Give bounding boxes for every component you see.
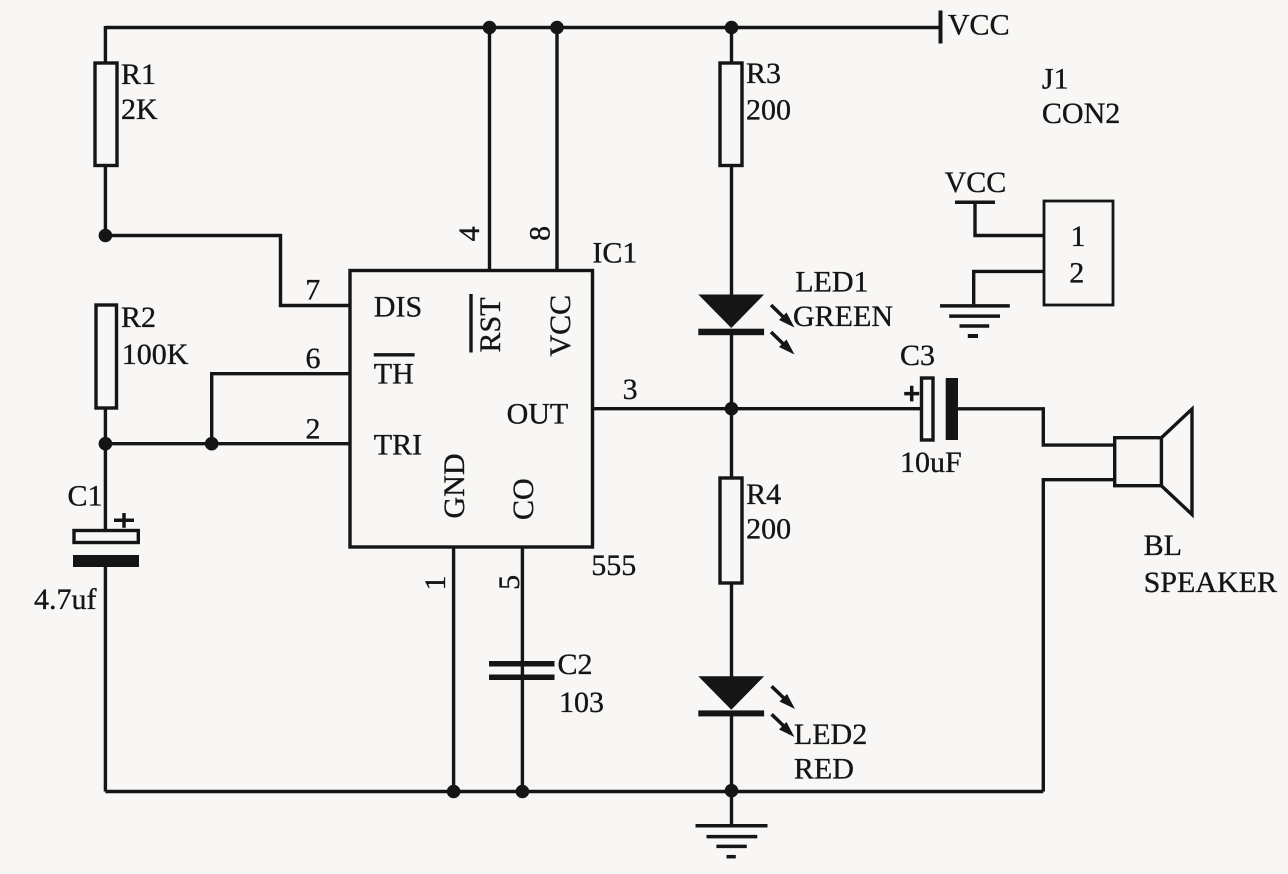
svg-text:RST: RST: [474, 297, 507, 352]
svg-text:R3: R3: [746, 57, 781, 90]
svg-text:C1: C1: [68, 479, 103, 512]
svg-text:VCC: VCC: [945, 166, 1007, 199]
svg-text:R2: R2: [121, 301, 156, 334]
svg-text:CON2: CON2: [1042, 97, 1120, 130]
svg-text:C3: C3: [900, 339, 935, 372]
svg-text:5: 5: [493, 575, 526, 590]
svg-text:10uF: 10uF: [900, 446, 962, 479]
svg-text:1: 1: [1071, 220, 1086, 253]
svg-text:555: 555: [591, 549, 636, 582]
svg-text:IC1: IC1: [592, 237, 637, 270]
svg-text:2: 2: [306, 412, 321, 445]
svg-text:2K: 2K: [121, 93, 158, 126]
svg-text:RED: RED: [794, 753, 854, 786]
svg-text:TH: TH: [374, 358, 414, 391]
svg-text:DIS: DIS: [374, 290, 422, 323]
svg-text:4: 4: [453, 226, 486, 241]
svg-text:200: 200: [746, 94, 791, 127]
svg-text:SPEAKER: SPEAKER: [1144, 566, 1277, 599]
svg-text:3: 3: [623, 373, 638, 406]
svg-text:J1: J1: [1042, 63, 1069, 96]
svg-text:8: 8: [524, 226, 557, 241]
svg-text:103: 103: [559, 686, 604, 719]
svg-text:6: 6: [306, 342, 321, 375]
svg-text:VCC: VCC: [948, 9, 1010, 42]
svg-text:C2: C2: [558, 648, 593, 681]
svg-text:TRI: TRI: [374, 429, 422, 462]
svg-text:1: 1: [419, 576, 452, 591]
svg-text:GREEN: GREEN: [793, 300, 893, 333]
svg-text:LED2: LED2: [794, 718, 867, 751]
svg-text:4.7uf: 4.7uf: [34, 583, 97, 616]
svg-text:GND: GND: [438, 454, 471, 519]
svg-text:100K: 100K: [122, 338, 189, 371]
svg-text:BL: BL: [1144, 529, 1182, 562]
svg-text:7: 7: [305, 274, 320, 307]
svg-text:VCC: VCC: [544, 295, 577, 357]
svg-text:200: 200: [746, 513, 791, 546]
svg-text:CO: CO: [507, 478, 540, 520]
svg-text:OUT: OUT: [507, 398, 569, 431]
svg-text:2: 2: [1069, 257, 1084, 290]
svg-text:R4: R4: [746, 478, 781, 511]
svg-text:R1: R1: [121, 58, 156, 91]
svg-text:LED1: LED1: [795, 265, 868, 298]
